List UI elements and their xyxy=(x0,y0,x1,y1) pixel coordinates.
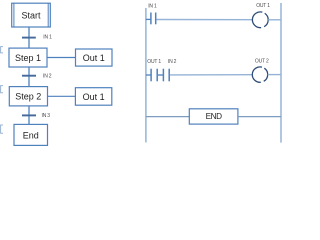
svg-text:Step 1: Step 1 xyxy=(15,53,41,63)
svg-text:OUT 1: OUT 1 xyxy=(256,3,270,9)
svg-text:IN 1: IN 1 xyxy=(148,3,157,9)
wire Step 2 to End xyxy=(28,106,30,124)
step Step 1 xyxy=(9,48,47,67)
svg-text:IN 2: IN 2 xyxy=(168,59,177,65)
end step End xyxy=(14,124,48,145)
step Step 2 xyxy=(9,87,47,106)
coil OUT 2 xyxy=(252,67,267,82)
wire Step 1 to Step 2 xyxy=(28,67,30,87)
rung 3 wire left rail to END block xyxy=(146,116,189,118)
svg-text:IN 2: IN 2 xyxy=(43,74,52,80)
svg-text:OUT 2: OUT 2 xyxy=(255,58,269,64)
contact OUT 1 xyxy=(151,69,157,82)
transition tick IN 2 xyxy=(22,75,36,77)
initial step Start (double-sided rectangle) xyxy=(12,3,51,27)
rung 1 wire contact to coil xyxy=(156,19,252,21)
contact IN 1 xyxy=(151,13,156,25)
svg-text:Out 1: Out 1 xyxy=(83,92,105,102)
rung 2 lead from left rail xyxy=(146,74,151,76)
svg-text:END: END xyxy=(206,112,222,121)
left power rail xyxy=(145,8,147,142)
svg-text:End: End xyxy=(23,130,39,140)
wire Step 2 to Out 1 xyxy=(48,95,76,97)
rung 2 wire between contacts xyxy=(158,74,163,76)
svg-text:Start: Start xyxy=(21,11,41,21)
contact IN 2 xyxy=(163,69,169,82)
rung 1 lead from left rail xyxy=(146,18,151,20)
svg-text:Step 2: Step 2 xyxy=(15,92,41,102)
rung 1 wire coil to right rail xyxy=(268,19,281,21)
coil OUT 1 xyxy=(252,12,268,28)
clipped shape at left edge 1 xyxy=(1,47,3,53)
clipped shape at left edge 2 xyxy=(1,86,3,93)
rung 2 wire coil to right rail xyxy=(268,74,281,76)
clipped shape at left edge 3 xyxy=(1,125,3,133)
action box Out 1 (step 1) xyxy=(76,49,113,66)
rung 2 wire contact to coil xyxy=(170,74,253,76)
svg-text:IN 3: IN 3 xyxy=(42,113,51,119)
svg-text:Out 1: Out 1 xyxy=(83,53,105,63)
transition tick IN 1 xyxy=(22,37,36,39)
wire Start to Step 1 xyxy=(28,27,30,48)
wire Step 1 to Out 1 xyxy=(47,57,76,59)
END block xyxy=(189,109,238,124)
svg-text:IN 1: IN 1 xyxy=(43,35,52,41)
transition tick IN 3 xyxy=(22,114,36,116)
svg-text:OUT 1: OUT 1 xyxy=(147,59,161,65)
right power rail xyxy=(280,3,282,143)
rung 3 wire END block to right rail xyxy=(238,116,281,118)
action box Out 1 (step 2) xyxy=(75,88,111,106)
